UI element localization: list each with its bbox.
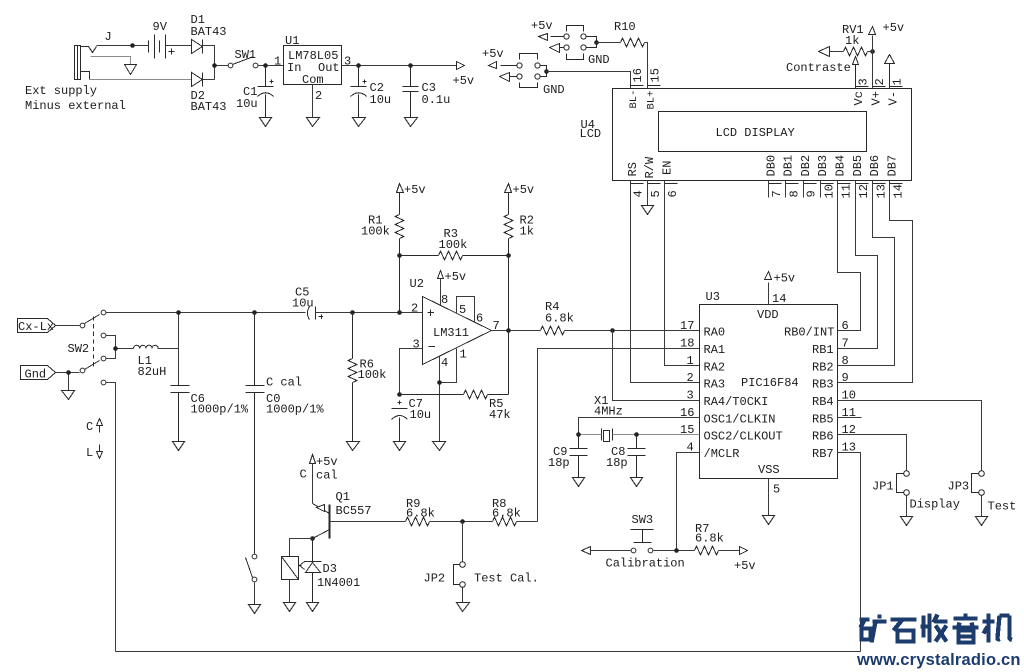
wire SW1 to U1 In — [259, 65, 284, 67]
svg-text:Test Cal.: Test Cal. — [474, 572, 539, 586]
svg-text:RB7: RB7 — [812, 447, 834, 461]
svg-text:Cx-Lx: Cx-Lx — [18, 320, 54, 334]
svg-text:Minus external: Minus external — [25, 99, 126, 113]
pin10 tick+number — [821, 183, 834, 185]
svg-text:2: 2 — [315, 89, 322, 103]
svg-text:JP2: JP2 — [424, 572, 446, 586]
+5v arrow upper jumper — [539, 34, 548, 41]
svg-text:DB1: DB1 — [782, 155, 796, 177]
svg-text:RA3: RA3 — [704, 378, 726, 392]
junction R3 left — [397, 253, 402, 258]
capacitor C3 0.1u — [403, 66, 419, 118]
svg-text:6.8k: 6.8k — [545, 312, 574, 326]
junction C7 node — [397, 392, 402, 397]
diode D1 BAT43 — [192, 40, 203, 54]
junction RA4 riser — [610, 328, 615, 333]
wire RB6 to JP1 — [838, 435, 907, 471]
junction JP2 node — [460, 519, 465, 524]
svg-text:DB6: DB6 — [868, 155, 882, 177]
guard bus wire — [116, 651, 861, 653]
+5v arrow op-amp pin8 — [438, 271, 444, 279]
svg-text:15: 15 — [680, 423, 694, 437]
svg-text:U1: U1 — [285, 34, 299, 48]
capacitor C2 10u — [351, 66, 367, 118]
wire U1 Com to ground — [312, 85, 314, 118]
svg-text:RB1: RB1 — [812, 343, 834, 357]
main oscillator wire — [106, 312, 306, 314]
pin13 tick+number — [873, 183, 886, 185]
svg-text:Display: Display — [910, 498, 960, 512]
svg-text:4MHz: 4MHz — [594, 405, 623, 419]
wire R8 to RA1 riser — [517, 521, 538, 523]
svg-text:1: 1 — [891, 78, 905, 85]
wire DB5 to PIC RB1 — [838, 181, 878, 349]
wire SW2 throws to L1 node — [106, 336, 134, 359]
svg-text:PIC16F84: PIC16F84 — [741, 376, 799, 390]
pin12 tick+number — [856, 183, 869, 185]
svg-text:+5v: +5v — [453, 74, 475, 88]
svg-text:EN: EN — [660, 161, 674, 175]
svg-text:9V: 9V — [153, 20, 168, 34]
resistor R1 100k — [395, 193, 404, 313]
wire RA4 riser — [613, 331, 700, 401]
svg-text:/MCLR: /MCLR — [704, 447, 740, 461]
svg-text:RA1: RA1 — [704, 343, 726, 357]
junction C6 top — [176, 310, 181, 315]
switch SW2 pole2 — [80, 368, 85, 373]
junction Gnd — [66, 370, 71, 375]
wire arrow to SW3 — [591, 550, 631, 552]
svg-text:In: In — [287, 61, 301, 75]
jumper JP3 — [979, 471, 985, 477]
ground C2 — [353, 118, 366, 127]
svg-text:14: 14 — [892, 184, 906, 198]
svg-text:Test: Test — [988, 500, 1017, 514]
svg-text:RA2: RA2 — [704, 360, 726, 374]
svg-text:6: 6 — [476, 312, 483, 326]
svg-text:3: 3 — [413, 338, 420, 352]
svg-text:+5v: +5v — [404, 183, 426, 197]
pin1+4 wires — [440, 349, 457, 442]
svg-text:BL+: BL+ — [645, 91, 657, 110]
switch SW1 — [228, 63, 233, 68]
wire battery to D1 — [166, 45, 192, 47]
svg-text:3: 3 — [857, 78, 871, 85]
svg-text:1k: 1k — [845, 34, 859, 48]
svg-text:12: 12 — [857, 184, 871, 198]
ground C3 — [405, 118, 418, 127]
wire R4 to PIC RA0 — [565, 330, 700, 332]
jumper block lower (+5v/GND select) — [501, 54, 547, 88]
ground JP1 — [901, 517, 913, 526]
ground C1 — [260, 118, 272, 127]
capacitor C8 18p — [628, 435, 646, 478]
junction R3 right — [506, 253, 511, 258]
pin16 tick+number — [631, 85, 644, 87]
svg-text:6: 6 — [666, 190, 680, 197]
op-amp U2 LM311 — [423, 297, 492, 365]
svg-text:JP3: JP3 — [948, 480, 970, 494]
svg-text:10u: 10u — [236, 97, 258, 111]
svg-text:0.1u: 0.1u — [422, 93, 451, 107]
svg-text:6.8k: 6.8k — [492, 506, 521, 520]
svg-text:V+: V+ — [869, 91, 883, 105]
svg-text:RB3: RB3 — [812, 378, 834, 392]
capacitor C9 18p — [570, 435, 588, 478]
svg-text:RB2: RB2 — [812, 360, 834, 374]
ground C7 — [394, 442, 406, 451]
ground C8 — [631, 478, 643, 487]
wire jack tip to battery — [97, 45, 149, 47]
wire RB5 stub — [838, 417, 862, 419]
ground pin1/4 — [433, 442, 446, 451]
pin14 VDD wire — [768, 283, 770, 305]
svg-text:100k: 100k — [361, 225, 390, 239]
pin7 tick+number — [769, 183, 782, 185]
svg-text:+5v: +5v — [734, 559, 756, 573]
svg-text:C: C — [300, 468, 307, 482]
svg-text:+5v: +5v — [316, 455, 338, 469]
inductor L1 82uH — [134, 345, 159, 348]
junction C0 top — [252, 310, 257, 315]
svg-text:DB5: DB5 — [851, 155, 865, 177]
junction lower jumper — [544, 69, 549, 74]
svg-text:RB0/INT: RB0/INT — [784, 326, 834, 340]
svg-text:2: 2 — [873, 78, 887, 85]
svg-text:SW2: SW2 — [68, 342, 90, 356]
wire Gnd tag — [56, 373, 80, 391]
svg-text:L: L — [86, 446, 93, 460]
svg-text:8: 8 — [441, 293, 448, 307]
wire L1 to C6 riser — [158, 313, 179, 386]
svg-text:4: 4 — [632, 190, 646, 197]
junction R6 top — [350, 310, 355, 315]
jumper JP2 — [460, 562, 466, 568]
wire DB0 stub — [768, 181, 770, 198]
wire jack ring — [91, 57, 131, 65]
diode D3 1N4001 — [299, 539, 322, 603]
junction C9 — [576, 432, 581, 437]
wire JP2 to ground — [462, 587, 464, 603]
+5v arrow R7 — [740, 547, 748, 555]
resistor R10 — [621, 38, 645, 47]
wire RA1 to R8 riser — [538, 349, 700, 522]
svg-text:C: C — [86, 420, 93, 434]
tag Cx-Lx — [18, 319, 56, 333]
port arrow upper jumper — [550, 44, 560, 53]
wire JP3 to ground — [981, 496, 983, 517]
svg-text:RB5: RB5 — [812, 412, 834, 426]
svg-text:8: 8 — [842, 354, 849, 368]
wire diode cathodes join — [203, 46, 229, 80]
pin15 tick+number — [648, 85, 661, 87]
ground (Gnd tag) — [62, 391, 75, 400]
watermark logo (crystalradio) — [860, 614, 1013, 643]
wire DB3 stub — [820, 181, 822, 198]
resistor R9 6.8k — [406, 517, 430, 526]
switch SW2 pole1 — [80, 323, 85, 328]
svg-text:D3: D3 — [323, 562, 337, 576]
svg-text:DB0: DB0 — [764, 155, 778, 177]
svg-text:BAT43: BAT43 — [191, 25, 227, 39]
wire EN to PIC RA2 — [665, 181, 700, 366]
ground C0 — [249, 605, 261, 614]
svg-text:1: 1 — [460, 348, 467, 362]
svg-text:LCD: LCD — [580, 127, 602, 141]
svg-text:BC557: BC557 — [336, 504, 372, 518]
SW2 link (dashed) — [93, 317, 95, 370]
ground R6 — [347, 442, 360, 451]
svg-text:5: 5 — [459, 303, 466, 317]
junction RV1 right — [870, 49, 875, 54]
wire crystal net — [579, 434, 700, 436]
svg-text:RS: RS — [626, 162, 640, 176]
svg-text:7: 7 — [493, 319, 500, 333]
svg-text:18p: 18p — [606, 456, 628, 470]
svg-text:2: 2 — [687, 371, 694, 385]
svg-text:Calibration: Calibration — [606, 557, 685, 571]
tag Gnd — [21, 366, 56, 380]
wire R7 to +5v — [719, 550, 740, 552]
svg-text:7: 7 — [842, 337, 849, 351]
junction L1 node — [113, 346, 118, 351]
svg-text:C cal: C cal — [266, 376, 302, 390]
wire RS to PIC RA3 — [631, 181, 700, 383]
capacitor C7 10u — [392, 401, 408, 442]
svg-text:5: 5 — [773, 483, 780, 497]
wire DB4 to PIC RB0 — [838, 181, 861, 331]
wire RB7 to guard bus — [838, 453, 861, 652]
svg-text:DB2: DB2 — [799, 155, 813, 177]
svg-text:cal: cal — [316, 469, 338, 483]
wire R10 to LCD pin15 — [645, 43, 648, 89]
svg-text:15: 15 — [648, 68, 662, 82]
potentiometer RV1 1k — [819, 47, 830, 57]
pins 5-6 balance loop — [457, 297, 475, 323]
capacitor C5 10u — [307, 307, 323, 320]
svg-text:4: 4 — [441, 356, 448, 370]
ground JP3 — [976, 517, 988, 526]
pin8 tick+number — [786, 183, 799, 185]
resistor R5 47k — [400, 331, 509, 400]
pin2 tick+number — [873, 86, 886, 88]
junction output/R2 — [506, 328, 511, 333]
resistor R6 100k — [348, 313, 357, 442]
svg-text:+5v: +5v — [513, 183, 535, 197]
svg-text:1000p/1%: 1000p/1% — [266, 403, 324, 417]
capacitor C1 10u — [258, 66, 274, 118]
junction C1 — [263, 63, 268, 68]
svg-text:1: 1 — [687, 354, 694, 368]
wire DB7 to PIC RB3 — [838, 181, 913, 383]
svg-text:3: 3 — [687, 389, 694, 403]
svg-text:Gnd: Gnd — [25, 368, 47, 382]
svg-text:DB3: DB3 — [816, 155, 830, 177]
svg-text:6.8k: 6.8k — [406, 506, 435, 520]
svg-text:+5v: +5v — [482, 47, 504, 61]
wire collector to relay — [290, 539, 313, 557]
svg-text:8: 8 — [787, 190, 801, 197]
svg-text:14: 14 — [772, 292, 786, 306]
svg-text:LCD DISPLAY: LCD DISPLAY — [716, 126, 795, 140]
svg-text:7: 7 — [770, 190, 784, 197]
svg-text:SW3: SW3 — [632, 513, 654, 527]
+5v arrow RV1 — [869, 27, 876, 35]
resistor R4 6.8k — [541, 326, 565, 335]
svg-text:1k: 1k — [520, 225, 534, 239]
ground relay — [284, 603, 296, 612]
svg-text:Ext supply: Ext supply — [25, 84, 97, 98]
wire SW2 throw4 to guard bus — [106, 383, 116, 652]
svg-text:RB6: RB6 — [812, 430, 834, 444]
wire R/W stub — [647, 181, 649, 206]
wire C5 to op-amp — [316, 312, 423, 314]
junction C2 — [356, 63, 361, 68]
svg-text:9: 9 — [842, 371, 849, 385]
wire U1 out rail — [342, 65, 457, 67]
svg-text:5: 5 — [649, 190, 663, 197]
wire pin8 — [440, 279, 442, 306]
svg-text:1N4001: 1N4001 — [317, 576, 360, 590]
wire RV1 to +5v and V+ — [868, 36, 873, 89]
resistor R8 6.8k — [493, 517, 517, 526]
svg-text:1: 1 — [274, 55, 281, 69]
svg-text:BAT43: BAT43 — [191, 100, 227, 114]
PIC16F84 U3 — [700, 305, 838, 479]
pin3 tick+number — [856, 86, 869, 88]
wire DB2 stub — [803, 181, 805, 198]
relay contact on C0 line — [252, 554, 257, 559]
ground R/W — [642, 206, 654, 215]
junction C3 — [408, 63, 413, 68]
pin9 tick+number — [804, 183, 817, 185]
svg-text:RA4/T0CKI: RA4/T0CKI — [704, 395, 769, 409]
V- pin1 up-triangle — [885, 55, 895, 89]
junction R1 bottom — [397, 310, 402, 315]
svg-text:82uH: 82uH — [138, 365, 167, 379]
svg-text:16: 16 — [631, 68, 645, 82]
ground (jack ring) — [125, 65, 137, 75]
ground C9 — [573, 478, 585, 487]
ground D3 — [307, 603, 319, 612]
ground JP2 — [457, 603, 470, 612]
wire jack sleeve to D2 — [90, 79, 192, 81]
svg-text:V-: V- — [887, 91, 901, 105]
svg-text:10: 10 — [822, 184, 836, 198]
pin5 tick+number — [648, 183, 661, 185]
pin11 tick+number — [838, 183, 851, 185]
svg-text:OSC2/CLKOUT: OSC2/CLKOUT — [704, 430, 783, 444]
ground U1 — [307, 118, 320, 127]
LCD module U4 — [613, 89, 912, 181]
wire DB1 stub — [785, 181, 787, 198]
svg-text:9: 9 — [805, 190, 819, 197]
relay coil K1 — [282, 557, 299, 580]
svg-text:VDD: VDD — [757, 308, 779, 322]
svg-text:RB4: RB4 — [812, 395, 834, 409]
svg-text:DB7: DB7 — [885, 155, 899, 177]
regulator U1 LM78L05 — [284, 46, 342, 85]
wire Q1 base to R9 — [330, 521, 406, 523]
svg-text:17: 17 — [680, 319, 694, 333]
battery 9V — [149, 35, 175, 59]
transistor Q1 BC557 — [313, 504, 330, 539]
resistor R3 100k — [400, 251, 509, 260]
svg-text:10u: 10u — [370, 93, 392, 107]
svg-text:U3: U3 — [706, 290, 720, 304]
svg-text:SW1: SW1 — [235, 48, 257, 62]
svg-text:R/W: R/W — [643, 156, 657, 178]
pin5 VSS wire — [768, 479, 770, 516]
diode D2 BAT43 — [192, 73, 203, 87]
svg-text:100k: 100k — [358, 368, 387, 382]
junction node — [212, 63, 217, 68]
svg-text:U2: U2 — [410, 277, 424, 291]
svg-text:12: 12 — [842, 423, 856, 437]
svg-text:13: 13 — [874, 184, 888, 198]
svg-text:OSC1/CLKIN: OSC1/CLKIN — [704, 412, 776, 426]
wire R9 to node — [430, 521, 493, 523]
wire SW3 to R7 — [654, 550, 695, 552]
+5v arrow R1 — [397, 184, 404, 193]
wire /MCLR — [677, 453, 700, 551]
junction upper jumper — [594, 40, 599, 45]
wire DB6 to PIC RB2 — [838, 181, 895, 366]
junction C8 — [634, 432, 639, 437]
svg-text:2: 2 — [411, 302, 418, 316]
wire to LCD pin16 — [547, 72, 631, 89]
svg-text:Q1: Q1 — [336, 490, 350, 504]
output wire pin7 — [492, 330, 541, 332]
jumper JP1 — [904, 471, 910, 477]
svg-text:6: 6 — [842, 319, 849, 333]
svg-text:18: 18 — [680, 337, 694, 351]
svg-text:+5v: +5v — [774, 272, 796, 286]
+5v arrow VDD — [765, 272, 772, 280]
jumper block upper (+5v/GND select) — [551, 26, 597, 60]
+5v arrow R2 — [505, 184, 512, 193]
ground C6 — [173, 442, 185, 451]
pin1 tick+number — [890, 86, 903, 88]
wire RB4 to JP3 — [838, 401, 982, 471]
svg-text:10u: 10u — [292, 297, 314, 311]
capacitor C0 1000p/1% (C cal) — [246, 313, 265, 554]
svg-text:100k: 100k — [439, 238, 468, 252]
pin3 wire — [400, 349, 423, 395]
wire OSC1 — [579, 418, 700, 435]
resistor R2 1k — [504, 193, 513, 331]
wire node to JP2 — [462, 522, 464, 562]
svg-text:+5v: +5v — [531, 19, 553, 33]
junction jack tip — [130, 43, 135, 48]
port arrow calibration — [582, 547, 591, 555]
+5v arrow lower jumper — [489, 62, 497, 69]
junction Q1 collector node — [310, 536, 315, 541]
svg-text:6.8k: 6.8k — [695, 532, 724, 546]
resistor R7 6.8k — [695, 546, 719, 555]
svg-text:Contraste: Contraste — [786, 61, 851, 75]
svg-text:RA0: RA0 — [704, 326, 726, 340]
svg-text:+5v: +5v — [445, 270, 467, 284]
svg-text:R10: R10 — [614, 20, 636, 34]
+5v arrow Q1 emitter — [310, 455, 316, 464]
wire tag to SW2 pole1 — [56, 325, 80, 327]
wire relay to ground — [289, 580, 291, 603]
pin4 tick+number — [631, 183, 644, 185]
svg-text:18p: 18p — [548, 456, 570, 470]
junction MCLR/R7 — [674, 548, 679, 553]
connector J (jack) — [75, 46, 97, 80]
